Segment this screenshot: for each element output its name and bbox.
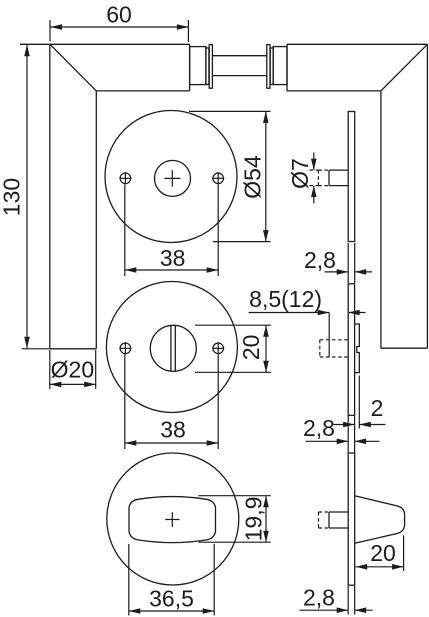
- rosette 2 turn knob circle: [150, 325, 196, 371]
- dimension 20 turn knob: [195, 325, 271, 372]
- svg-text:2,8: 2,8: [303, 415, 335, 441]
- right handle collar ring small: [270, 48, 273, 84]
- dimension 2,8 top: [304, 247, 372, 275]
- right handle lever bottom edge: [287, 90, 381, 92]
- side view 2 base strip with notch: [355, 324, 360, 373]
- left handle collar ring small: [206, 48, 209, 84]
- rosette 1 center cross: [164, 170, 180, 186]
- dimension 2,8 bottom: [300, 585, 373, 614]
- svg-text:60: 60: [106, 1, 132, 27]
- left handle neck: [190, 47, 206, 85]
- right handle miter diagonal: [381, 44, 428, 91]
- side view 3 rosette plate: [348, 453, 355, 585]
- rosette 1 left screw hole: [119, 172, 131, 184]
- left handle collar flange: [209, 45, 212, 89]
- side view 3 thumbturn knob: [355, 496, 405, 543]
- svg-text:38: 38: [160, 245, 186, 271]
- left handle lever end: [189, 44, 191, 91]
- left handle lever bottom edge: [96, 90, 189, 92]
- svg-text:20: 20: [370, 540, 396, 566]
- svg-text:38: 38: [160, 416, 186, 442]
- dimension Ø7: [287, 153, 319, 204]
- right handle lever end: [286, 44, 288, 91]
- right handle collar flange: [267, 45, 270, 89]
- right handle neck: [273, 47, 287, 85]
- plate extension lines between side view 1 and 2: [348, 243, 355, 283]
- svg-text:Ø20: Ø20: [51, 356, 94, 382]
- svg-text:19,9: 19,9: [240, 497, 266, 542]
- dimension Ø54: [189, 111, 271, 241]
- dimension 8,5(12): [249, 286, 366, 357]
- rosette 2 outer circle: [106, 282, 237, 413]
- side view 1 spindle stub hidden: [318, 170, 329, 186]
- left handle miter diagonal: [50, 44, 96, 91]
- svg-text:2,8: 2,8: [304, 247, 336, 273]
- svg-text:Ø7: Ø7: [287, 158, 313, 189]
- rosette 3 thumbturn front: [129, 497, 216, 543]
- left handle grip: [50, 44, 97, 349]
- dimension 36,5: [129, 544, 214, 616]
- rosette 2 left screw hole: [119, 342, 131, 354]
- side view 3 spindle stub solid: [329, 512, 348, 528]
- svg-text:2: 2: [371, 395, 384, 421]
- plate extension lines between side view 2 and 3: [348, 416, 354, 453]
- rosette 1 outer circle: [105, 111, 237, 243]
- svg-text:Ø54: Ø54: [239, 155, 265, 199]
- rosette 3 center cross: [165, 512, 179, 527]
- svg-text:20: 20: [238, 335, 264, 361]
- side view 1 rosette plate: [348, 112, 355, 242]
- plate extension lines below side view 3: [348, 586, 355, 615]
- dimension Ø20 grip: [50, 350, 96, 389]
- dimension 38 rosette 2: [125, 355, 218, 450]
- rosette 1 spindle hole: [155, 160, 191, 196]
- rosette 2 turn knob slot: [171, 326, 175, 371]
- svg-text:130: 130: [0, 178, 25, 216]
- left lever handle top edge: [20, 43, 190, 45]
- right lever handle top edge: [287, 43, 427, 45]
- side view 2 rosette plate: [348, 284, 354, 416]
- rosette 1 right screw hole: [212, 172, 224, 184]
- dimension 20 knob depth: [356, 536, 404, 572]
- dimension 2,8 middle: [303, 415, 379, 444]
- side view 3 spindle stub hidden: [319, 512, 330, 528]
- rosette 2 right screw hole: [212, 342, 224, 354]
- rosette 3 outer circle: [107, 453, 239, 585]
- dimension 19,9: [199, 496, 271, 543]
- dimension 60: [50, 1, 188, 42]
- dimension 38 rosette 1: [125, 185, 218, 277]
- side view 2 spindle stub hidden: [320, 340, 348, 357]
- svg-text:2,8: 2,8: [303, 585, 335, 611]
- side view 2 strip extension line: [358, 376, 360, 429]
- dimension 2: [334, 395, 386, 428]
- svg-text:8,5(12): 8,5(12): [249, 286, 322, 312]
- dimension 130: [0, 45, 49, 349]
- side view 1 spindle stub solid: [329, 170, 348, 186]
- spindle: [212, 56, 266, 76]
- right handle grip: [381, 44, 428, 348]
- svg-text:36,5: 36,5: [149, 585, 194, 611]
